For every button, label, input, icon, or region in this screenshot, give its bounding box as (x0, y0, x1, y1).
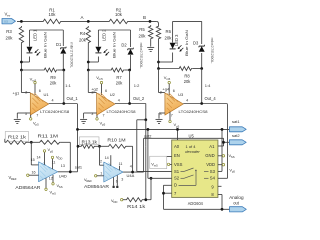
svg-text:REF: REF (86, 179, 92, 183)
svg-text:13: 13 (61, 164, 65, 168)
pin V_m5 ch2 (96, 75, 103, 95)
svg-text:Out_1: Out_1 (67, 96, 79, 101)
svg-text:20k: 20k (50, 80, 58, 85)
resistor R7 (110, 68, 125, 85)
resistor R1 (42, 7, 62, 23)
node U4A out (131, 171, 134, 174)
label ADG604 (188, 201, 204, 206)
svg-text:+g1: +g1 (13, 90, 21, 95)
svg-text:R9: R9 (50, 75, 56, 80)
svg-text:p5: p5 (176, 124, 180, 128)
wire ch2 input rail (88, 69, 129, 71)
ground R5 (147, 47, 154, 51)
resistor R13 (79, 137, 99, 148)
svg-text:Out_2: Out_2 (133, 96, 145, 101)
svg-text:1:2: 1:2 (134, 83, 140, 88)
node ch3 led junction (157, 61, 160, 64)
node out2-r14 (144, 198, 147, 201)
svg-text:U2: U2 (110, 92, 116, 97)
svg-text:AD8564AR: AD8564AR (84, 184, 109, 189)
svg-text:1:4: 1:4 (205, 83, 211, 88)
node comp1 input (30, 141, 33, 144)
input flag V_ev (2, 11, 16, 24)
svg-text:11: 11 (119, 162, 123, 166)
svg-text:EN: EN (174, 153, 180, 158)
svg-text:sat2: sat2 (232, 133, 240, 138)
LED LED2 (95, 47, 109, 56)
svg-text:14: 14 (37, 155, 41, 159)
pin V_SS U4D (52, 175, 63, 189)
comparator U4A (100, 156, 135, 184)
svg-text:LED 1: LED 1 (32, 29, 37, 41)
svg-text:1: 1 (100, 171, 102, 175)
wire comp1 feedback (61, 142, 71, 172)
svg-text:A0: A0 (174, 144, 180, 149)
pin V_m3 ch1 (30, 77, 37, 96)
pin7 stub (164, 192, 172, 194)
wire comp2 feedback (127, 146, 133, 172)
svg-text:0.5: 0.5 (4, 20, 8, 24)
node Out_4 (200, 102, 203, 105)
label mbr27E200L D1 (70, 42, 75, 69)
wire R6 down (158, 40, 160, 69)
label +g4 (162, 87, 170, 92)
op-amp U1 (25, 91, 54, 118)
diode D3 (193, 41, 205, 52)
svg-text:LTC6240HCS8: LTC6240HCS8 (107, 109, 137, 114)
svg-text:out: out (233, 200, 240, 205)
node A (80, 15, 89, 23)
label U5 (189, 134, 195, 139)
pin V_p5 U1 (30, 115, 40, 127)
output flag sat1 (229, 119, 246, 132)
output flag sat2 (229, 133, 246, 145)
node sat1-out1 (76, 128, 79, 131)
label 1:4 (205, 83, 211, 88)
label +g2 (91, 87, 99, 92)
svg-text:Blue In GaN: Blue In GaN (42, 32, 47, 58)
svg-text:LED 2: LED 2 (101, 29, 106, 41)
op-amp U2 (91, 91, 120, 118)
output flag Analog out (229, 195, 246, 212)
node R13-sat1 (77, 145, 80, 148)
svg-text:S3: S3 (210, 169, 216, 174)
pin V_m5 ch3 (164, 75, 171, 95)
svg-text:U4A: U4A (127, 173, 135, 178)
svg-text:R3: R3 (6, 29, 12, 34)
svg-text:20k: 20k (165, 35, 173, 40)
svg-text:15: 15 (31, 158, 35, 162)
ground U2 (80, 113, 97, 123)
svg-text:VSS: VSS (174, 162, 183, 167)
wire R3 to input rail (20, 44, 22, 70)
svg-text:12: 12 (49, 176, 53, 180)
wire loop2 (88, 30, 130, 70)
wire ch3 inverting input (159, 69, 165, 93)
label mbr27E200L D2 (139, 43, 144, 70)
svg-text:U5: U5 (189, 134, 195, 139)
svg-text:p5: p5 (35, 123, 39, 127)
svg-text:p5: p5 (50, 149, 54, 153)
svg-text:AD8564AR: AD8564AR (15, 185, 40, 190)
svg-text:SS: SS (59, 185, 63, 189)
wire R14 up (144, 178, 152, 199)
pin V_REF U4A (84, 175, 104, 184)
wire ch1 inverting input (21, 70, 30, 93)
pin V_p5 U4D (43, 147, 53, 164)
resistor R14 (125, 198, 146, 209)
label LTC6240HCS8 U1 (40, 109, 70, 114)
wire ch3 feedback (201, 69, 203, 104)
pin V_m5 mux (150, 156, 172, 168)
label +g1 (13, 90, 21, 95)
svg-text:D1: D1 (56, 42, 62, 47)
svg-text:1:1: 1:1 (65, 83, 71, 88)
svg-text:REF: REF (11, 177, 17, 181)
svg-text:20k: 20k (184, 79, 192, 84)
node B (143, 15, 151, 23)
resistor R8 (178, 67, 193, 84)
svg-text:S1: S1 (174, 169, 180, 174)
svg-text:U4D: U4D (59, 173, 67, 178)
node ch2 rail right (128, 69, 131, 72)
label 1:1 (65, 83, 71, 88)
svg-text:4: 4 (52, 98, 54, 102)
wire S4 from Out_4 (218, 105, 228, 179)
svg-text:mbr27E200L: mbr27E200L (210, 38, 215, 65)
pin EN stub (167, 156, 172, 158)
wire U4A output (123, 171, 144, 173)
svg-text:GND: GND (205, 153, 214, 158)
wire ch2 feedback (129, 70, 131, 104)
ground U1 (14, 113, 31, 123)
pin9 stub (218, 185, 222, 187)
svg-text:A: A (80, 15, 83, 20)
svg-text:ev: ev (7, 14, 11, 18)
svg-text:2: 2 (25, 91, 27, 95)
resistor R6 (156, 25, 172, 40)
comparator U4D (31, 155, 67, 181)
resistor R2 (108, 7, 129, 23)
svg-text:R5: R5 (139, 27, 145, 32)
svg-text:decoder: decoder (185, 149, 200, 154)
wire A0 select (177, 129, 179, 140)
svg-text:R12 1k: R12 1k (8, 135, 27, 140)
pin V_p5 U2 (96, 115, 106, 127)
node A1-sat2 (222, 141, 225, 144)
svg-text:2: 2 (100, 159, 102, 163)
wire A1 select (218, 142, 224, 146)
svg-text:m5: m5 (52, 192, 56, 196)
svg-text:3: 3 (121, 178, 123, 182)
label LED 3 (174, 34, 179, 46)
label Out_2 (133, 96, 145, 101)
node pin8-out (221, 208, 224, 211)
svg-text:LED 3: LED 3 (174, 34, 179, 46)
resistor R9 (43, 68, 58, 85)
node out2 branch (144, 118, 147, 121)
svg-text:16: 16 (32, 171, 36, 175)
svg-text:7: 7 (103, 113, 105, 117)
svg-text:R7: R7 (116, 75, 122, 80)
label LTC6240HCS8 U2 (107, 109, 137, 114)
svg-text:R4: R4 (80, 31, 86, 36)
svg-text:m5: m5 (99, 77, 103, 81)
label LTC6240HCS8 U3 (179, 109, 209, 114)
label sat2 mid (144, 134, 151, 139)
wire R13 tap (78, 145, 80, 147)
wire S2 feed (148, 129, 172, 178)
svg-text:20k: 20k (6, 35, 14, 40)
wire loop3 (159, 21, 202, 68)
svg-text:ADG604: ADG604 (188, 201, 204, 206)
svg-text:mbr27E200L: mbr27E200L (139, 43, 144, 70)
node S3-sat1 (221, 128, 224, 131)
svg-text:R8: R8 (184, 74, 190, 79)
svg-text:7: 7 (171, 113, 173, 117)
wire out2 down2 (145, 146, 147, 199)
svg-text:U3: U3 (178, 92, 184, 97)
node ch3 rail right (200, 67, 203, 70)
label LED 1 (32, 29, 37, 41)
wire comp1 input down (27, 142, 38, 165)
label AD8564AR U4D (15, 185, 40, 190)
svg-text:m5: m5 (166, 77, 170, 81)
wire comp2 input down (96, 146, 108, 165)
svg-text:Blue In GaN: Blue In GaN (184, 30, 189, 56)
pin V_DD U4D (51, 155, 62, 170)
svg-text:A1: A1 (209, 144, 215, 149)
wire S3 from sat1 rail (218, 129, 222, 171)
pin V_m5 U4D (45, 178, 56, 195)
svg-text:sat1: sat1 (75, 165, 82, 170)
svg-text:2: 2 (160, 91, 162, 95)
node S2-sat1rail (147, 128, 150, 131)
svg-text:20k: 20k (139, 33, 147, 38)
LED LED1 (27, 47, 41, 56)
label 1:2 (134, 83, 140, 88)
label Blue In GaN ch1 (42, 32, 47, 58)
op-amp U3 (160, 91, 189, 118)
svg-text:R10 1M: R10 1M (107, 138, 126, 143)
node ch1 rail right (62, 69, 65, 72)
wire U3 output (183, 104, 227, 105)
wire U1 output (49, 103, 77, 105)
diode D2 (121, 43, 133, 55)
node comp2 input (98, 145, 101, 148)
svg-text:7: 7 (36, 113, 38, 117)
mux U5 ADG604 (172, 140, 218, 197)
svg-text:LTC6240HCS8: LTC6240HCS8 (40, 109, 70, 114)
svg-text:D3: D3 (193, 41, 199, 46)
svg-text:R13 1k: R13 1k (82, 139, 99, 144)
label Out_4 (205, 96, 217, 101)
pin V_REF U4D (9, 174, 39, 181)
resistor R5 (139, 25, 153, 40)
svg-text:sat1: sat1 (232, 119, 240, 124)
svg-text:DD: DD (58, 157, 62, 161)
label LED 2 (101, 29, 106, 41)
svg-text:U1: U1 (44, 92, 50, 97)
svg-text:SS: SS (231, 155, 235, 159)
svg-text:LTC6240HCS8: LTC6240HCS8 (179, 109, 209, 114)
node loop1-R3 junction (20, 61, 23, 64)
svg-text:1 of 4: 1 of 4 (185, 144, 196, 149)
node U4D out (69, 170, 72, 173)
svg-text:6: 6 (39, 89, 41, 93)
svg-text:p5: p5 (232, 170, 236, 174)
node loop2-R4 junction (87, 61, 90, 64)
resistor R10 (107, 138, 127, 149)
resistor R12 (5, 132, 29, 145)
wire pin8 down (218, 195, 222, 210)
label pin6 ch1 (39, 89, 41, 93)
svg-text:D: D (174, 183, 177, 188)
pin squares U4A (113, 175, 119, 188)
node A0-sat1 (176, 128, 179, 131)
svg-text:4: 4 (130, 164, 132, 168)
wire U2 output (115, 103, 146, 105)
wire comp1 rail stub (4, 139, 6, 143)
pin V_DD R14 (111, 198, 125, 204)
svg-text:VDD: VDD (206, 162, 215, 167)
svg-text:10k: 10k (115, 12, 123, 17)
pin VDD mux (218, 164, 235, 174)
wire U4D output (58, 171, 78, 173)
wire ch1 feedback (63, 70, 65, 104)
wire ch3 input rail (159, 68, 202, 70)
label Out_1 (67, 96, 79, 101)
label Blue In GaN ch2 (111, 32, 116, 58)
svg-text:Blue In GaN: Blue In GaN (111, 32, 116, 58)
node Out_1 (62, 102, 65, 105)
pin GND mux (218, 153, 235, 159)
svg-text:4: 4 (186, 98, 188, 102)
label sat1 mid (75, 165, 82, 170)
svg-text:R6: R6 (166, 29, 172, 34)
svg-text:R14 1k: R14 1k (127, 204, 146, 209)
svg-text:4: 4 (118, 98, 120, 102)
svg-text:14: 14 (105, 156, 109, 160)
diode D1 (56, 42, 66, 54)
svg-text:20k: 20k (116, 80, 124, 85)
pin V_p5 U3 (169, 112, 180, 129)
ground U3 (156, 113, 165, 123)
svg-text:2: 2 (92, 91, 94, 95)
label pin6 ch2 (105, 89, 107, 93)
label mbr27E200L D3 (210, 38, 215, 65)
svg-text:20k: 20k (79, 37, 87, 42)
label Blue In GaN ch3 (184, 30, 189, 56)
wire R5 to ground (150, 40, 152, 47)
svg-text:Out_4: Out_4 (205, 96, 217, 101)
pin stub U4A-11 (119, 166, 121, 171)
node ch2 rail left (87, 69, 90, 72)
svg-text:DD: DD (113, 200, 117, 204)
svg-text:S2: S2 (174, 176, 180, 181)
svg-text:S4: S4 (210, 176, 216, 181)
resistor R3 (6, 26, 24, 44)
svg-text:R11 1M: R11 1M (38, 134, 59, 139)
node V_ev junction (20, 20, 23, 23)
resistor R11 (38, 134, 61, 145)
svg-text:p5: p5 (102, 123, 106, 127)
wire sat1 rail (78, 104, 230, 172)
svg-text:10k: 10k (49, 12, 57, 17)
svg-text:6: 6 (173, 89, 175, 93)
LED LED3 (170, 43, 184, 52)
wire ch2 inverting input (88, 70, 96, 93)
wire sat2 rail (144, 138, 230, 172)
svg-text:6: 6 (105, 89, 107, 93)
node pin7-D (162, 192, 165, 195)
wire top rail (17, 21, 159, 25)
wire D to analog out (164, 185, 230, 209)
node Out_2 (128, 102, 131, 105)
svg-text:mbr27E200L: mbr27E200L (70, 42, 75, 69)
svg-text:B: B (143, 15, 146, 20)
wire out2 down (145, 120, 147, 147)
resistor R4 (79, 26, 90, 44)
node R14-S2 (150, 177, 153, 180)
pin stub U4A-14 (110, 155, 112, 166)
wire ch1 input rail (21, 69, 63, 71)
label AD8564AR U4A (84, 184, 109, 189)
label pin6 ch3 (173, 89, 175, 93)
wire loop1 (21, 30, 63, 70)
wire R4 to input rail (87, 44, 89, 70)
svg-text:D2: D2 (121, 43, 127, 48)
node ch1 rail left (20, 69, 23, 72)
wire S1 from Out_2 branch (137, 104, 172, 172)
svg-text:m5: m5 (154, 164, 158, 168)
node ch3 rail left (157, 67, 160, 70)
